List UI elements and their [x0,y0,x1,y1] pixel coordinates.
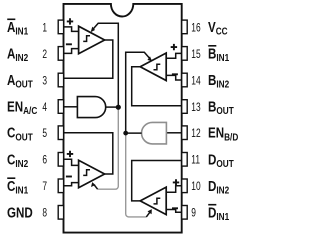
label pin 3: AOUT [7,72,33,90]
svg-text:BIN2: BIN2 [208,72,229,90]
label pin 2: AIN2 [7,45,28,63]
label pin 10: DIN2 [208,178,229,196]
svg-text:14: 14 [191,75,201,88]
svg-text:DIN1: DIN1 [208,204,229,222]
pin 10 box [182,179,188,193]
svg-text:CIN1: CIN1 [7,178,28,196]
pin 1 box [58,20,63,34]
arrowhead U1A enable [91,27,95,33]
wire pin14 to U1B - input [166,75,182,80]
pin number 6 [42,154,47,167]
wire G1 output to node [106,106,119,108]
svg-text:CIN2: CIN2 [7,151,28,169]
pin number 4 [42,102,47,115]
IC body outline with pin-1 notch [64,4,182,233]
svg-text:1: 1 [42,22,47,35]
svg-text:COUT: COUT [7,124,33,142]
enable wire to U1C (gray) [98,107,119,189]
U1C + label [67,151,73,157]
arrow line U1D enable [146,212,150,217]
svg-text:15: 15 [191,49,201,62]
wire pin6 to U1C + input [64,159,79,165]
pin 2 box [58,47,63,61]
comparator U1B [140,53,166,81]
wire U1D output to pin 11 [132,161,182,201]
comparator U1C [79,160,105,188]
enable wire to U1A with arrow [93,23,119,107]
U1A - label [66,43,72,45]
pin number 3 [42,75,47,88]
svg-text:ENB/D: ENB/D [208,124,239,142]
enable buffer G1 (EN A/C) [77,97,105,118]
label pin 7: ~CIN1 [7,178,28,196]
arrowhead U1B enable [147,56,152,61]
pin 6 box [58,153,63,167]
comparator U1A [79,26,105,54]
pin number 16 [191,22,201,35]
U1C - label [66,176,72,178]
pin number 13 [191,102,201,115]
pin number 10 [191,181,201,194]
pin 11 box [182,153,188,167]
enable wire to U1B with arrow [126,52,150,133]
pin 9 box [182,206,188,220]
hysteresis symbol U1D [154,198,161,204]
svg-text:AIN1: AIN1 [7,19,28,37]
label pin 8: GND [7,204,33,221]
svg-text:13: 13 [191,102,201,115]
svg-text:GND: GND [7,204,33,221]
label pin 13: BOUT [208,98,234,116]
svg-text:7: 7 [42,181,47,194]
svg-text:11: 11 [191,154,200,167]
pin 8 box [58,206,63,220]
wire U1C output to pin 5 [64,133,113,174]
svg-text:DIN2: DIN2 [208,178,229,196]
wire U1B output to pin 13 [132,67,182,106]
label pin 5: COUT [7,124,33,142]
wire G2 output to node [126,132,142,134]
node A/C enable junction [116,105,121,110]
svg-text:12: 12 [191,128,201,141]
svg-text:AIN2: AIN2 [7,45,28,63]
label pin 16: VCC [208,19,228,37]
U1A + label [67,18,73,24]
pin 15 box [182,47,188,61]
pin number 8 [42,207,47,220]
label pin 9: ~DIN1 [208,204,229,222]
U1D + label [173,179,179,185]
label pin 1: ~AIN1 [7,19,28,37]
pin number 5 [42,128,47,141]
pin number 1 [42,22,47,35]
pin number 2 [42,49,47,62]
hysteresis symbol U1C [83,170,90,176]
wire pin2 to U1A - input [64,49,79,54]
arrowhead U1D enable [148,209,152,214]
U1D - label [172,207,178,209]
pin number 7 [42,181,47,194]
label pin 11: DOUT [208,151,234,169]
arrow line U1C enable [94,185,97,189]
hysteresis symbol U1B [154,64,161,70]
label pin 4: ENA/C [7,98,38,116]
pin number 12 [191,128,201,141]
U1B + label [171,44,177,50]
label pin 12: ENB/D [208,124,239,142]
wire U1A output to pin 3 [64,40,113,78]
wire pin7 to U1C - input [64,183,79,186]
node B/D enable junction [123,131,128,136]
svg-text:6: 6 [42,154,47,167]
label pin 14: BIN2 [208,72,229,90]
pin 4 box [58,100,63,114]
enable wire to U1D (gray) [126,133,147,217]
svg-text:AOUT: AOUT [7,72,33,90]
wire pin15 to U1B + input [166,53,182,58]
enable buffer G2 (EN B/D) [142,122,167,143]
wire pin1 to U1A + input [64,27,79,32]
wire pin4 to enable gate G1 [64,106,78,108]
svg-text:DOUT: DOUT [208,151,234,169]
pin number 9 [191,207,196,220]
label pin 15: ~BIN1 [208,45,229,63]
svg-text:2: 2 [42,49,47,62]
pin number 14 [191,75,201,88]
svg-text:BIN1: BIN1 [208,45,229,63]
pin 16 box [182,20,188,34]
wire pin12 to enable gate G2 [166,132,181,134]
pin 14 box [182,73,188,87]
svg-text:16: 16 [191,22,201,35]
svg-text:9: 9 [191,207,196,220]
wire pin9 to U1D - input [166,210,182,213]
pin number 11 [191,154,200,167]
comparator U1D [140,187,166,215]
pin 7 box [58,179,63,193]
svg-text:VCC: VCC [208,19,228,37]
wire pin10 to U1D + input [166,186,182,193]
pin 12 box [182,126,188,140]
pin 3 box [58,73,63,87]
pin number 15 [191,49,201,62]
svg-text:ENA/C: ENA/C [7,98,38,116]
label pin 6: CIN2 [7,151,28,169]
pin 13 box [182,100,188,114]
svg-text:5: 5 [42,128,47,141]
svg-text:4: 4 [42,102,47,115]
pin 5 box [58,126,63,140]
svg-text:3: 3 [42,75,47,88]
svg-text:10: 10 [191,181,201,194]
svg-text:8: 8 [42,207,47,220]
hysteresis symbol U1A [83,36,90,42]
U1B - label [172,73,178,75]
arrowhead U1C enable [91,182,96,187]
svg-text:BOUT: BOUT [208,98,234,116]
